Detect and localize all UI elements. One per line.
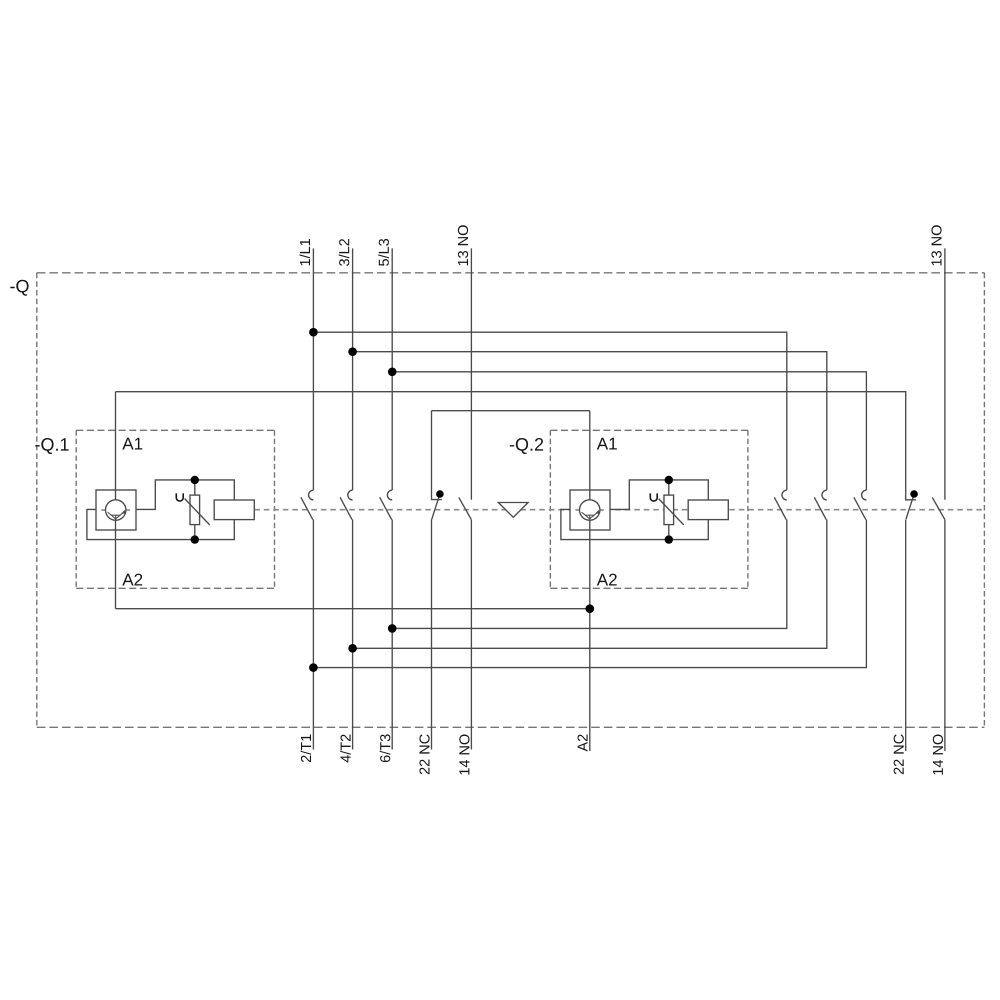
main contact pole L2 blade [340,497,352,519]
label U (Q.1 varistor) [176,493,183,501]
coil U2 arrowhead [596,510,600,514]
terminal line 1/L1 upper [312,248,314,490]
terminal label A2 [578,735,588,752]
junction dot L2 tap [348,347,357,356]
coil U2 circle left tick [575,509,579,511]
wire Q.2 varistor top stub [668,480,670,495]
NO aux contact blade (Q.2) [932,497,945,519]
junction dot T3 [388,624,397,633]
main contact pole Q.2-2 blade [814,497,826,519]
label A1 (Q.1) [122,438,142,450]
wire Q.1 coil left return [87,509,234,539]
terminal label 13 NO (Q.1) [458,225,468,265]
coil U2 chord [585,514,594,516]
terminal label 13 NO (Q.2) [931,225,941,265]
wire Q.1 A1 feed from Q.2 NC contact [116,392,917,500]
coil U2 circle bottom stub [589,515,591,521]
varistor RV1 slash [185,499,210,525]
coil U2 V-arrow [582,512,598,519]
wire L3 tap to Q.2 pole 3 [392,372,866,490]
main contact pole Q.2-1 blade [774,497,786,519]
terminal line 14 NO lower (Q.2) [944,520,946,751]
junction dot Q.1 varistor bottom [191,535,199,543]
wire Q.1 coil top rail [136,480,234,510]
terminal label 22 NC (Q.1) [419,734,429,774]
coil U1 circle left tick [101,509,105,511]
terminal line 4/T2 lower [352,520,354,750]
wire L2 tap to Q.2 pole 2 [353,352,827,490]
terminal label 22 NC (Q.2) [894,734,904,774]
junction dot Q.1 varistor top [191,476,199,484]
junction dot T1 [309,663,318,672]
label A1 (Q.2) [597,438,617,450]
terminal line 5/L3 upper [391,248,393,490]
junction dot Q.2 varistor bottom [665,535,673,543]
wire Q.1 varistor top stub [194,480,196,495]
junction dot L1 tap [309,328,318,337]
wire Q.2 varistor bottom stub [668,525,670,540]
junction dot A2 link [586,604,595,613]
main contact pole L3 seat arc [387,490,392,500]
main contact pole Q.2-3 seat arc [862,490,867,500]
coil U1 circle bottom stub [115,515,117,521]
label -Q.2 [510,438,543,454]
junction dot L3 tap [388,368,397,377]
junction dot T2 [348,644,357,653]
terminal line 13 NO upper (Q.2) [944,248,946,499]
terminal label 14 NO (Q.1) [459,735,469,775]
coil U2 circle symbol (Q.2) [580,500,600,520]
terminal line 3/L2 upper [352,248,354,490]
coil K2 body (Q.2 operating coil) [688,500,728,520]
terminal line 22 NC lower (Q.2) [905,520,907,751]
wire Q.2 pole 3 output to 2/T1 [313,520,866,668]
coil U1 V-arrow [108,512,124,519]
main contact pole L1 blade [301,497,313,519]
coil module box U2 (Q.2 electronics square) [570,490,610,530]
contactor box -Q.2 [550,430,748,588]
terminal label 5/L3 [378,239,389,266]
wire L1 tap to Q.2 pole 1 [313,332,786,490]
wire A1 vertical of Q.1 [115,392,117,609]
varistor RV2 slash [659,499,684,525]
wire Q.2 coil left return [561,509,708,539]
terminal line 22 NC lower (Q.1) [431,519,433,749]
mechanical interlock triangle [498,503,528,518]
contactor box -Q.1 [76,430,274,588]
coil U1 arrowhead [122,510,126,514]
terminal label 14 NO (Q.2) [933,735,943,775]
coil K1 body (Q.1 operating coil) [214,500,254,520]
terminal label 3/L2 [339,239,350,266]
main contact pole Q.2-3 blade [854,497,866,519]
coil module box U1 (Q.1 electronics square) [96,490,136,530]
main contact pole Q.2-2 seat arc [822,490,827,500]
terminal label 1/L1 [300,239,311,265]
NC aux contact blade (Q.1) [432,494,440,519]
coil U2 circle right tick [600,509,604,511]
coil U1 circle symbol (Q.1) [106,500,126,520]
junction dot Q.2 varistor top [665,476,673,484]
wire Q.2 coil top rail [610,480,708,510]
label -Q [10,280,28,296]
wire A2 common link [116,608,590,610]
wire Q.1 varistor bottom stub [194,525,196,540]
main contact pole L2 seat arc [348,490,353,500]
junction dot NC blade pivot (Q.2) [910,490,918,498]
coil U1 chord [111,514,120,516]
terminal line 6/T3 lower [391,520,393,750]
terminal line 2/T1 lower [312,520,314,750]
terminal label 2/T1 [301,735,312,763]
main contact pole L3 blade [380,497,392,519]
enclosure box -Q [37,273,985,728]
main contact pole Q.2-1 seat arc [782,490,787,500]
wire Q.2 pole 1 output to 6/T3 [392,520,787,629]
NO aux contact blade (Q.1) [459,497,472,519]
terminal line 14 NO lower (Q.1) [470,520,472,750]
terminal line 13 NO upper (Q.1) [470,248,472,499]
wire A1/A2 vertical of Q.2 [589,411,591,751]
main contact pole L1 seat arc [309,490,314,500]
junction dot NC blade pivot (Q.1) [436,490,444,498]
mechanical actuator dashed link [254,509,984,511]
wire Q.2 A1 feed from Q.1 NC contact [432,410,590,412]
varistor RV2 body (Q.2) [664,495,674,524]
wire Q.2 pole 2 output to 4/T2 [353,520,827,649]
coil U1 circle right tick [126,509,130,511]
NC aux contact blade (Q.2) [906,494,914,519]
label -Q.1 [35,438,68,454]
terminal label 4/T2 [340,735,351,763]
label U (Q.2 varistor) [650,493,657,501]
varistor RV1 body (Q.1) [190,495,200,524]
terminal label 6/T3 [380,734,391,762]
label A2 (Q.1) [122,574,142,586]
NC aux 21 terminal with seat bar (Q.1) [432,411,442,500]
label A2 (Q.2) [597,574,617,586]
